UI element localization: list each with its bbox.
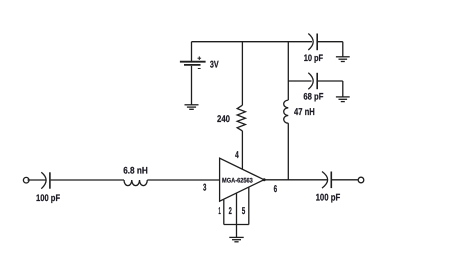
svg-text:5: 5 (242, 206, 246, 217)
capacitor C4 68 pF (308, 73, 313, 90)
wire rail to ground (236, 225, 238, 238)
svg-text:3V: 3V (210, 59, 219, 70)
capacitor C1 100 pF (input, curved plate) (41, 172, 46, 188)
svg-text:1: 1 (218, 206, 221, 217)
resistor R1 240 (237, 105, 245, 131)
wire pin 1 (223, 200, 225, 225)
svg-text:4: 4 (235, 150, 239, 161)
battery BT1 3V (191, 42, 193, 61)
wire top rail to R1 (241, 42, 243, 105)
wire pin 6 to C2 (264, 179, 327, 181)
wire input terminal to C1 (28, 179, 46, 181)
ground (10 pF) (336, 57, 350, 62)
battery minus sign (198, 68, 201, 70)
svg-text:47 nH: 47 nH (294, 107, 315, 118)
svg-text:6: 6 (274, 184, 278, 195)
svg-text:240: 240 (217, 114, 230, 125)
wire L2 to output node (287, 123, 289, 180)
wire L1 to pin 3 (147, 179, 219, 181)
wire C2 to output terminal (332, 179, 358, 181)
svg-text:10 pF: 10 pF (304, 52, 324, 63)
capacitor C2 100 pF (output, curved plate) (322, 172, 328, 189)
svg-text:3: 3 (203, 183, 207, 194)
battery plus sign (198, 56, 202, 60)
svg-text:MGA-62563: MGA-62563 (222, 177, 253, 184)
output terminal circle (358, 177, 364, 183)
wire R1 to pin 4 (241, 131, 243, 170)
op-amp U1 MGA-62563 triangle (220, 158, 264, 201)
wire top rail to 68pF node (287, 42, 289, 100)
wire C3 to ground (318, 41, 343, 43)
wire C4 to ground (318, 80, 343, 82)
wire pin 2 (236, 194, 238, 225)
ground (pins) (229, 237, 243, 241)
ground (68 pF) (336, 97, 350, 102)
wire bottom rail (224, 224, 249, 226)
inductor L2 47 nH (284, 100, 289, 123)
ground (battery) (185, 105, 199, 110)
svg-text:6.8 nH: 6.8 nH (123, 165, 148, 176)
input terminal circle (23, 177, 29, 183)
wire C1 to L1 (51, 179, 124, 181)
top rail wire (192, 41, 313, 43)
wire 68pF node to C4 (288, 80, 311, 82)
inductor L1 6.8 nH (124, 180, 147, 186)
svg-text:68 pF: 68 pF (303, 91, 323, 102)
wire pin 5 (248, 188, 250, 225)
svg-text:2: 2 (229, 206, 233, 217)
capacitor C3 10 pF (308, 34, 313, 51)
svg-text:100 pF: 100 pF (36, 193, 60, 204)
node output junction dot at apex (263, 178, 266, 181)
svg-text:100 pF: 100 pF (316, 193, 341, 204)
